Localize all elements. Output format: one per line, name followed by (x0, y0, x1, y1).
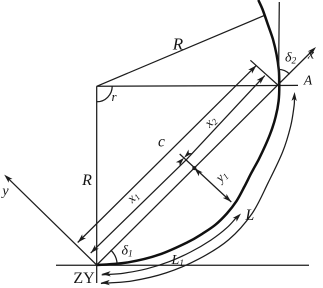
arrowhead L1 right (233, 214, 241, 222)
main circular curve ZY to beyond A (97, 0, 280, 265)
arrowhead c lower (78, 234, 86, 242)
arrowhead L1 left (102, 271, 111, 276)
arrowhead x1 upper (176, 158, 184, 166)
arrowhead x2 lower (184, 150, 192, 158)
svg-text:y: y (0, 184, 9, 199)
arrowhead y axis (4, 175, 12, 183)
svg-text:c: c (158, 134, 165, 151)
svg-text:A: A (303, 73, 313, 88)
arrowhead x axis (308, 47, 316, 55)
wire: y axis from ZY (7, 177, 97, 265)
svg-text:ZY: ZY (73, 270, 95, 287)
arc dimension L (101, 97, 295, 283)
arrowhead y1 upper (194, 168, 202, 176)
svg-text:x: x (307, 48, 315, 63)
svg-text:L: L (244, 207, 254, 224)
arrowhead L left (101, 280, 110, 285)
wire: chord ZY-A extended as x axis (97, 50, 314, 266)
wire: bottom tangent line through ZY (56, 264, 309, 266)
wire: vertical radius O-ZY (96, 86, 98, 283)
wire: radius R to upper arc (97, 15, 265, 86)
arrowhead x2 upper (257, 76, 265, 84)
dimension line c (78, 65, 257, 242)
wire: vertical tangent at A (278, 2, 281, 86)
svg-text:R: R (81, 172, 92, 189)
dimension line y1 (180, 154, 232, 202)
angle arc delta2 (278, 69, 289, 74)
angle arc delta1 (111, 250, 117, 264)
dimension line x1 (91, 160, 186, 253)
arrowhead L right (292, 92, 297, 101)
arc dimension L1 (102, 217, 238, 275)
node dot F on chord (192, 166, 196, 170)
dimension line x2 (186, 76, 265, 160)
arrowhead y1 lower (223, 194, 232, 202)
arrowhead x1 lower (91, 245, 99, 253)
wire: extension line at A (250, 60, 278, 85)
wire: horizontal radius O-A (97, 84, 298, 87)
arrowhead c upper (248, 65, 256, 73)
svg-text:R: R (172, 35, 184, 54)
angle arc r (97, 86, 113, 102)
